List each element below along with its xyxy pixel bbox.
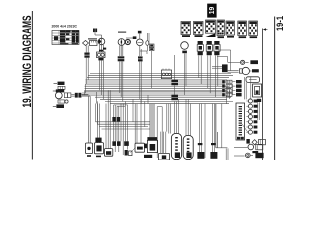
wire — [96, 92, 98, 104]
wire — [85, 91, 228, 93]
plug connector P1 — [198, 41, 203, 44]
wire — [126, 37, 135, 39]
inline connector — [58, 86, 65, 89]
wire — [119, 45, 121, 56]
indicator lamp L1 — [125, 40, 130, 45]
inline connector — [171, 95, 178, 97]
label bar — [118, 31, 126, 34]
wire — [148, 33, 150, 44]
regulator box — [246, 77, 260, 83]
wire — [227, 57, 229, 63]
left margin rule — [31, 11, 33, 160]
wire — [99, 61, 101, 91]
plug connector P3 — [214, 41, 219, 44]
wire — [105, 104, 107, 149]
wire — [244, 77, 246, 99]
wire — [134, 104, 136, 144]
battery lead — [246, 153, 251, 158]
caption — [87, 155, 91, 157]
connector ticks — [198, 143, 203, 145]
black marker — [206, 33, 216, 37]
wire — [198, 55, 200, 77]
lead arrow — [53, 105, 56, 107]
lead connectors — [222, 80, 225, 83]
wire — [82, 93, 89, 95]
wire — [216, 147, 228, 149]
wire bundle — [215, 104, 217, 148]
wire — [184, 53, 186, 95]
connector — [138, 56, 143, 58]
svg-text:19. WIRING DIAGRAMS: 19. WIRING DIAGRAMS — [20, 16, 34, 108]
connector — [182, 51, 187, 54]
wire — [119, 62, 121, 94]
chapter tab 19 — [207, 4, 216, 18]
svg-text:19: 19 — [209, 7, 216, 15]
wire — [94, 32, 96, 35]
connector row — [246, 139, 249, 144]
svg-text:2000 4x4 2023C: 2000 4x4 2023C — [52, 25, 78, 29]
relay box RL1 — [161, 70, 171, 79]
connector block CB6 — [238, 21, 247, 36]
ignition switch SW1 — [98, 38, 105, 45]
connector block CB3 — [206, 20, 216, 33]
indicator label A — [93, 29, 95, 33]
wire — [234, 147, 248, 149]
lead arrow — [53, 90, 56, 92]
plug connector P2 — [207, 41, 212, 44]
connector — [197, 152, 204, 159]
wire — [88, 96, 90, 143]
switch housing SH2 — [183, 135, 193, 159]
ground strap — [144, 155, 152, 158]
wire — [85, 58, 87, 84]
connector — [95, 138, 101, 143]
wire — [99, 45, 101, 52]
connector — [125, 150, 128, 156]
wire — [211, 104, 213, 153]
harness bus B — [82, 92, 233, 94]
wire — [234, 155, 245, 157]
wire — [160, 132, 162, 154]
CDI unit — [147, 137, 157, 140]
inline connector — [112, 117, 116, 121]
horn H1 — [55, 92, 62, 99]
wire — [156, 107, 158, 158]
inline connector — [75, 93, 78, 98]
wire — [146, 33, 148, 41]
inline connector — [58, 100, 65, 103]
flasher relay — [85, 143, 92, 154]
wire — [71, 93, 74, 95]
wire — [149, 104, 151, 138]
wire — [214, 55, 216, 97]
bullet connector — [241, 60, 245, 64]
connector stack — [149, 44, 154, 47]
wire — [120, 104, 122, 142]
wire — [221, 104, 223, 148]
wire — [139, 34, 141, 39]
headlight socket — [239, 69, 242, 73]
wire — [168, 104, 170, 134]
wire — [185, 99, 187, 135]
resistor box — [135, 143, 145, 152]
terminal box — [97, 52, 106, 58]
magneto M1 — [181, 42, 189, 50]
pin column — [246, 100, 248, 102]
wire — [230, 50, 232, 71]
svg-text:19-1: 19-1 — [275, 16, 285, 31]
wire — [114, 104, 128, 106]
connector — [257, 99, 261, 102]
connector block CB1 — [181, 22, 191, 35]
starter relay — [248, 144, 254, 150]
connector pair — [84, 53, 89, 55]
wire — [113, 105, 115, 141]
wire — [207, 55, 209, 88]
inline connector — [112, 141, 116, 146]
switch housing SH1 — [171, 133, 181, 159]
wire — [85, 46, 87, 53]
fuel gauge G2 — [137, 39, 144, 46]
fuse block F1 — [90, 41, 98, 46]
connector pair — [64, 93, 67, 98]
wire — [257, 102, 259, 120]
wire — [139, 46, 141, 56]
harness bus A — [90, 73, 231, 75]
bulb — [146, 41, 149, 46]
wire — [173, 101, 175, 133]
connector — [118, 56, 125, 58]
junction box — [158, 153, 169, 160]
inline connector — [171, 80, 178, 82]
fuse strip — [236, 103, 245, 140]
wire — [212, 66, 222, 68]
connector — [98, 58, 103, 60]
harness bus C — [96, 121, 151, 123]
pointer line — [242, 124, 249, 134]
connector block CB2 — [194, 22, 204, 35]
wire — [198, 104, 200, 153]
right margin rule — [274, 17, 276, 161]
diode D1 — [83, 41, 89, 46]
wire — [84, 84, 86, 93]
connector block CB5 — [226, 21, 235, 35]
unit box — [104, 149, 112, 157]
label — [138, 31, 142, 34]
connector — [144, 144, 147, 149]
ignition box — [253, 84, 262, 97]
wire — [95, 104, 97, 122]
wire — [139, 62, 141, 100]
speedometer G1 — [118, 39, 125, 46]
label bar — [88, 38, 97, 39]
legend spec table — [52, 31, 79, 45]
connector — [210, 152, 217, 159]
connector block CB7 — [249, 21, 258, 36]
wire — [96, 104, 98, 143]
main feed wire — [262, 29, 264, 161]
connector block CB4 — [217, 20, 225, 36]
lead arrow — [54, 83, 58, 85]
control unit CU1 — [94, 143, 103, 154]
connector — [222, 64, 228, 72]
